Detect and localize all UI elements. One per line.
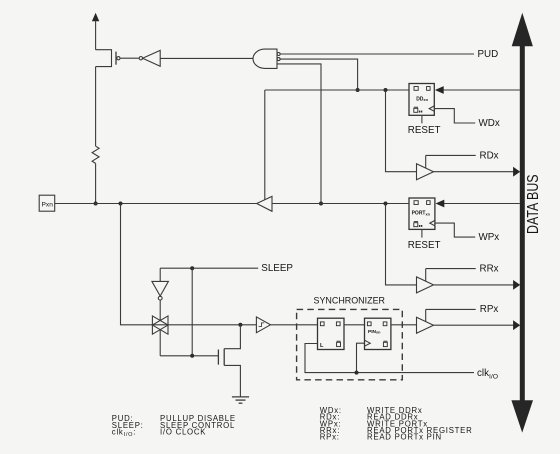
power VCC arrow [92,13,99,50]
pad Pxn [39,195,55,211]
wire PUD net [280,53,474,55]
wire DDxn Q to driver enable [265,89,409,91]
inverter sleep (down) [152,281,169,320]
wire inverter input from AND output [160,57,253,59]
wire DDxn D input from data bus [435,86,520,94]
svg-text:PORTxn: PORTxn [412,211,431,217]
node junction RDx tap [384,88,388,92]
inverter pullup (drives PMOS gate) [139,50,160,66]
svg-text:DATA BUS: DATA BUS [525,174,542,234]
transistor pullup PMOS [96,50,120,67]
node junction SLEEP [190,266,194,270]
and-gate pullup control [253,49,280,68]
node junction RRx tap [384,202,388,206]
node junction sleep/nmos gate [190,354,194,358]
synchronizer dashed box [297,309,403,379]
buffer RDx tri-state [417,155,476,179]
svg-text:SLEEP: SLEEP [261,263,293,274]
wire clk I/O net [305,343,474,374]
wire input signal through gate to schmitt [152,324,256,326]
latch 2 PINxn [365,318,391,349]
svg-text:RPx: RPx [480,304,499,315]
svg-text:READ PORTx PIN: READ PORTx PIN [367,433,442,442]
wire RPx output to bus [434,320,521,330]
wire resistor to pin line [95,163,97,203]
svg-text:DDxn: DDxn [416,96,428,102]
node junction nmos drain [238,323,242,327]
wire PORTxn Q line [272,203,409,205]
node junction AND2/DDxnQ [356,88,360,92]
svg-text:RRx: RRx [480,263,499,274]
wire RDx read tap [386,90,417,172]
flip-flop DDxn [409,84,434,116]
data bus [511,13,533,433]
svg-text:RDx: RDx [480,150,499,161]
node pullup/pin junction [94,202,98,206]
wire latch1 to latch2 [344,324,365,326]
svg-text:I/O CLOCK: I/O CLOCK [160,427,206,436]
flip-flop PORTxn [409,198,435,229]
svg-text:SYNCHRONIZER: SYNCHRONIZER [314,295,386,305]
wire nmos gate line [160,355,218,357]
svg-text:RPx:: RPx: [320,433,340,442]
svg-text:RESET: RESET [408,125,441,136]
wire latch2 out to RPx buffer [391,324,417,326]
wire RDx output to bus [434,167,521,177]
wire pmos gate [120,57,139,59]
wire AND input 3 to PORTxn Q [277,64,321,204]
svg-text:Pxn: Pxn [42,201,54,208]
wire PORTxn D input from data bus [436,200,520,208]
wire RRx read tap [386,204,417,285]
wire WPx to PORTxn clock [435,223,475,237]
svg-text:PINxn: PINxn [368,329,381,335]
legend left [112,414,236,438]
wire pin to input path [121,204,153,325]
wire RESET stub PORTxn [421,229,423,237]
wire SLEEP net [160,267,258,269]
node pin branch junction [119,202,123,206]
wire pmos drain to resistor [95,67,97,147]
buffer RRx tri-state [417,269,476,293]
resistor pullup [92,146,99,163]
wire sleep vertical to nmos gate [191,268,193,356]
buffer RPx tri-state [417,309,476,333]
latch 1 (sync first stage) [318,318,345,349]
wire RESET stub DDxn [421,115,423,123]
schmitt trigger buffer [256,317,270,333]
wire schmitt out to synchronizer [271,324,318,326]
svg-text:WPx: WPx [479,232,500,243]
ground [232,397,249,403]
legend right [320,406,473,442]
wire WDx to DDxn clock [434,109,475,123]
transmission gate [152,316,168,356]
svg-text:L: L [320,343,324,349]
svg-text:PUD: PUD [478,49,499,60]
wire pin line [55,203,257,205]
svg-text:RESET: RESET [408,240,441,251]
wire sleep to inverter [159,268,161,281]
svg-text:WDx: WDx [479,118,500,129]
tri-state output driver [257,90,272,211]
node junction AND3/PORTxnQ [319,202,323,206]
wire AND input 2 to DDxn Q [280,59,357,90]
wire RRx output to bus [434,280,521,290]
transistor NMOS sleep clamp [218,325,240,397]
